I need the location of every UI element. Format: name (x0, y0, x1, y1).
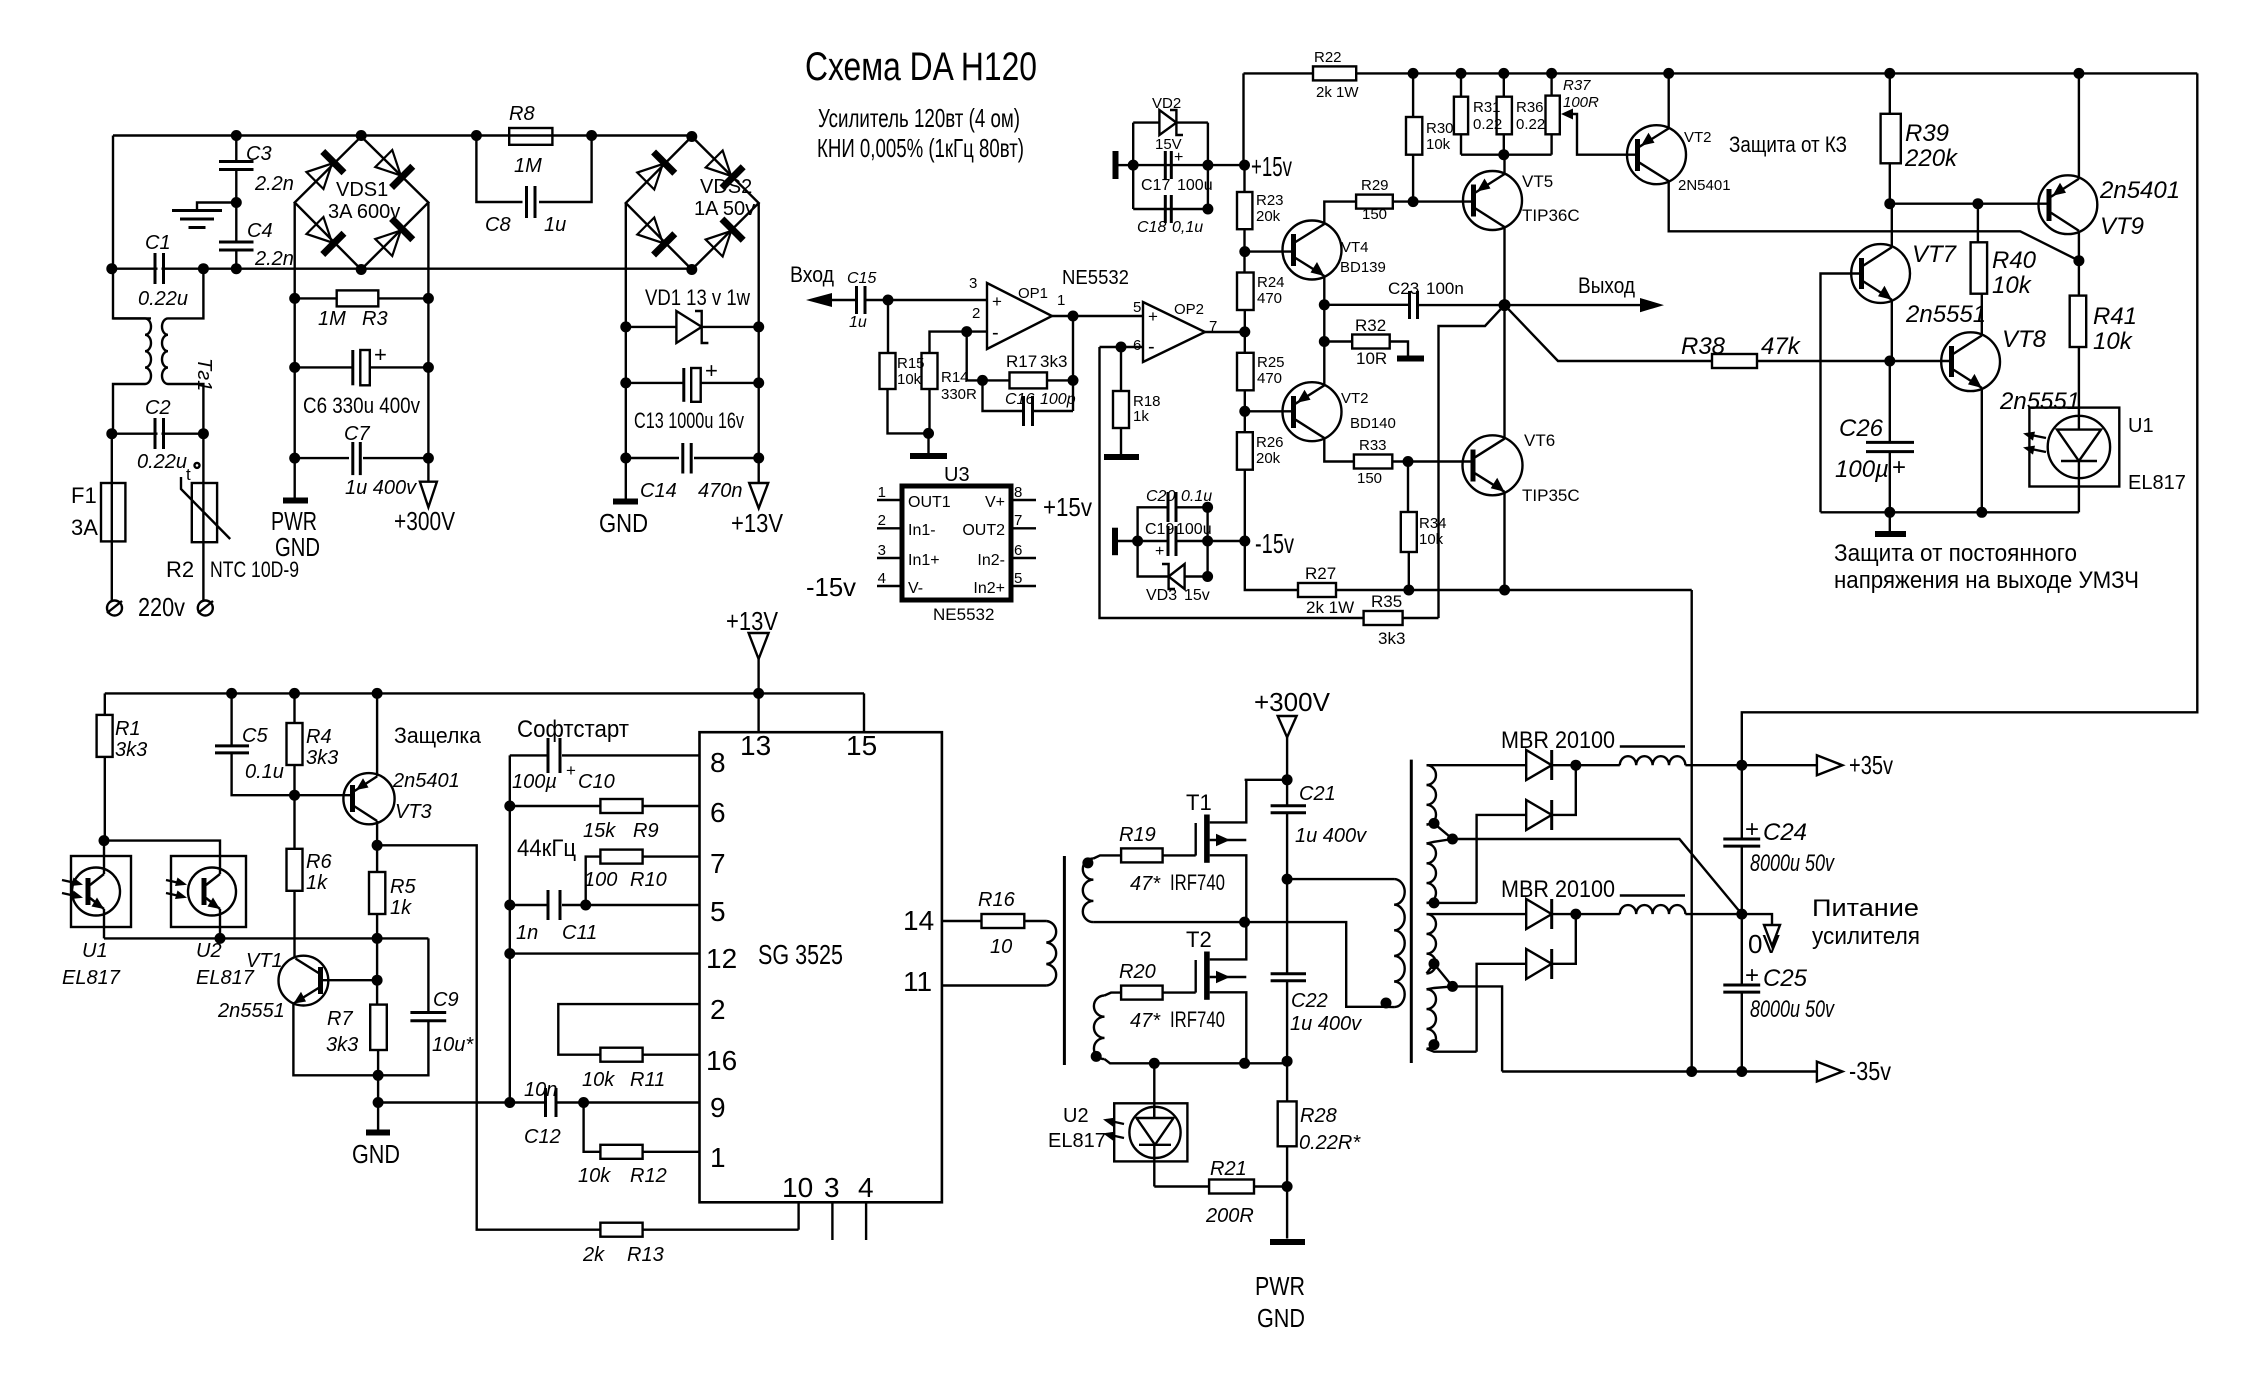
svg-text:10k: 10k (1992, 272, 2033, 299)
wire top rail (113, 134, 691, 136)
svg-text:+: + (1148, 307, 1158, 326)
svg-text:R36: R36 (1516, 99, 1544, 116)
VT3 emitter to rail (376, 693, 378, 776)
secondary W4 (1427, 989, 1437, 1048)
svg-text:R4: R4 (306, 726, 332, 748)
svg-text:15v: 15v (1184, 587, 1210, 604)
svg-text:+13V: +13V (731, 508, 784, 538)
svg-text:R23: R23 (1256, 192, 1284, 209)
VT3 collector down (376, 821, 378, 872)
svg-text:5: 5 (710, 896, 726, 927)
capacitor C6 (polarized) (295, 366, 353, 368)
svg-text:R16: R16 (978, 889, 1016, 911)
capacitor C19 (1138, 540, 1167, 542)
svg-text:10k: 10k (897, 371, 922, 388)
svg-text:C3: C3 (246, 143, 272, 165)
svg-text:0.22: 0.22 (1473, 116, 1502, 133)
svg-text:-: - (1148, 336, 1155, 358)
node R29/R30 (1408, 196, 1419, 207)
wire mid to main primary top (1287, 878, 1394, 880)
svg-text:U3: U3 (944, 464, 970, 486)
VT2 collector to R33 (1324, 438, 1354, 462)
capacitor C18 (1133, 208, 1208, 210)
svg-text:F1: F1 (71, 483, 97, 508)
svg-text:3A: 3A (71, 515, 98, 540)
svg-text:2: 2 (972, 305, 980, 322)
svg-text:+: + (1745, 816, 1759, 843)
node dot C3 top (231, 130, 242, 141)
svg-text:10: 10 (782, 1172, 813, 1203)
svg-text:VT6: VT6 (1524, 431, 1555, 450)
resistor R14 (922, 353, 938, 389)
U3 pin stubs right (1011, 499, 1036, 501)
svg-text:-15v: -15v (1255, 528, 1294, 559)
resistor R19 (1121, 848, 1163, 862)
svg-text:2k 1W: 2k 1W (1316, 84, 1359, 101)
svg-text:C5: C5 (242, 725, 268, 747)
VT4 collector lead + R29 line (1324, 202, 1356, 224)
svg-text:5: 5 (1133, 299, 1141, 316)
svg-text:R1: R1 (115, 718, 141, 740)
svg-text:OP1: OP1 (1018, 285, 1048, 302)
ground bar PWR GND (283, 498, 308, 504)
diode D2 (1477, 815, 1527, 903)
node C1 right (198, 263, 209, 274)
node feedback right (1068, 375, 1079, 386)
svg-text:470: 470 (1257, 370, 1282, 387)
node R33/R34 (1403, 456, 1414, 467)
resistor R17 (983, 379, 1010, 381)
VT1 emitter down to R7 bottom (293, 1004, 378, 1076)
svg-text:BD139: BD139 (1340, 259, 1386, 276)
svg-text:100R: 100R (1563, 94, 1599, 111)
pin 4 stub (865, 1202, 867, 1240)
svg-text:8000u 50v: 8000u 50v (1750, 996, 1835, 1023)
node VDS2 bottom (AC line end) (686, 264, 697, 275)
resistor R28 (1278, 1101, 1297, 1146)
svg-text:GND: GND (352, 1139, 400, 1169)
wire OP2 pin6 left (1100, 346, 1144, 348)
svg-text:-15v: -15v (806, 572, 856, 602)
svg-text:220k: 220k (1904, 145, 1959, 172)
svg-text:BD140: BD140 (1350, 415, 1396, 432)
wire amp top rail (1244, 72, 1314, 74)
arrow +13V (749, 483, 768, 508)
svg-text:R21: R21 (1210, 1158, 1247, 1180)
wire OP2 out to chain (1205, 331, 1245, 333)
resistor R27 line (1298, 583, 1336, 597)
node C21/C22 mid to primary (1282, 874, 1293, 885)
svg-text:8: 8 (710, 747, 726, 778)
svg-text:R29: R29 (1361, 177, 1389, 194)
svg-text:10k: 10k (1419, 531, 1444, 548)
svg-text:0V: 0V (1748, 929, 1780, 959)
transistor VT8 2n5551 (1941, 332, 2000, 391)
svg-text:Софтстарт: Софтстарт (517, 716, 629, 743)
svg-text:-: - (992, 322, 999, 344)
svg-text:+: + (1745, 962, 1759, 989)
wire C2 line (112, 433, 204, 435)
svg-text:напряжения на выходе УМЗЧ: напряжения на выходе УМЗЧ (1834, 567, 2139, 594)
arrow +300V (420, 482, 437, 508)
svg-text:R11: R11 (630, 1069, 665, 1091)
svg-text:2k 1W: 2k 1W (1306, 598, 1354, 617)
output wire + arrow Выход (1505, 304, 1643, 306)
VT6 emitter down (1503, 492, 1505, 590)
svg-text:3k3: 3k3 (115, 739, 147, 761)
secondary W2 (1427, 844, 1437, 903)
node dot VDS1 top (356, 130, 367, 141)
svg-text:7: 7 (1014, 512, 1022, 529)
svg-text:2n5401: 2n5401 (2099, 177, 2180, 204)
svg-text:9: 9 (710, 1092, 726, 1123)
capacitor C7 (295, 457, 349, 459)
svg-text:10R: 10R (1356, 349, 1387, 368)
svg-text:2n5551: 2n5551 (1999, 388, 2080, 415)
node VDS2 top (686, 131, 697, 142)
svg-text:0.22R*: 0.22R* (1299, 1132, 1361, 1154)
svg-text:3k3: 3k3 (306, 747, 338, 769)
capacitor C15 (855, 286, 858, 314)
svg-text:1: 1 (878, 484, 886, 501)
svg-text:усилителя: усилителя (1812, 923, 1920, 950)
node C5/R4/VT3 base (289, 790, 300, 801)
svg-text:U2: U2 (1063, 1105, 1089, 1127)
resistor R38 (1712, 354, 1757, 368)
node R15/R14 ground junction (923, 428, 934, 439)
emitter sense line R31/R36 bottoms (1461, 153, 1552, 155)
ground bar PWR GND (power) (1270, 1239, 1305, 1245)
svg-text:R39: R39 (1905, 120, 1949, 147)
capacitor C26 (1889, 361, 1891, 442)
wire VDS2 left vertical to GND rail (625, 203, 627, 499)
capacitor C4 (235, 203, 237, 243)
node R8 left / C8 left (471, 130, 482, 141)
svg-text:R14: R14 (941, 369, 969, 386)
svg-text:+300V: +300V (1254, 687, 1331, 717)
optocoupler U2 receiver (171, 856, 246, 927)
zener VD1 13v (626, 326, 677, 328)
VT8 emitter down (1981, 388, 1983, 512)
resistor R10 (586, 857, 601, 905)
ground bus for SG3525 (509, 755, 511, 1102)
node R18 top (1116, 342, 1127, 353)
node C1 left (106, 263, 117, 274)
node C15/R15 (883, 295, 894, 306)
svg-text:R17: R17 (1006, 352, 1037, 371)
svg-text:R32: R32 (1355, 316, 1386, 335)
wire to feedback node (967, 332, 983, 381)
emitter bus wire (104, 937, 428, 939)
resistor R22 (1313, 66, 1356, 80)
svg-text:VT9: VT9 (2100, 213, 2144, 240)
capacitor C1 (154, 253, 157, 284)
wire rail right end down to PSU (1742, 73, 2198, 765)
svg-text:1n: 1n (516, 922, 538, 944)
resistor R1 (104, 693, 106, 715)
svg-text:C16: C16 (1005, 391, 1034, 408)
svg-text:+15v: +15v (1251, 151, 1292, 182)
svg-text:2k: 2k (582, 1244, 605, 1266)
svg-text:C22: C22 (1291, 990, 1328, 1012)
svg-text:2: 2 (710, 994, 726, 1025)
svg-text:6: 6 (1014, 542, 1022, 559)
svg-text:1k: 1k (1133, 408, 1149, 425)
svg-text:100p: 100p (1040, 391, 1076, 408)
svg-text:470: 470 (1257, 290, 1282, 307)
VT2 emitter lead to rail (1667, 73, 1669, 128)
svg-text:100u: 100u (1176, 521, 1212, 538)
svg-text:2: 2 (878, 512, 886, 529)
0V ground arrow (1742, 914, 1772, 925)
resistor R16 (942, 920, 982, 922)
resistor R5 (369, 872, 385, 914)
svg-text:100n: 100n (1426, 279, 1464, 298)
node VDS1 bottom (356, 264, 367, 275)
svg-text:47*: 47* (1130, 1010, 1161, 1032)
svg-text:Выход: Выход (1578, 273, 1635, 298)
transistor VT9 2n5401 (2038, 175, 2097, 234)
svg-text:t: t (186, 465, 191, 484)
node OP2 out / R24-R25 (1239, 326, 1250, 337)
svg-text:VT3: VT3 (395, 801, 432, 823)
capacitor C9 (427, 938, 429, 1012)
main transformer core (1410, 760, 1413, 1063)
svg-text:13: 13 (740, 730, 771, 761)
diode D3 (1526, 899, 1552, 929)
svg-text:VT4: VT4 (1341, 239, 1369, 256)
svg-text:C4: C4 (247, 220, 273, 242)
diode D4 (1477, 964, 1527, 1052)
svg-text:470n: 470n (698, 480, 743, 502)
svg-text:+: + (566, 761, 576, 780)
svg-text:EL817: EL817 (1048, 1130, 1106, 1152)
resistor R4 (287, 723, 303, 765)
VT9 emitter to rail (2078, 73, 2080, 178)
wire output to R38 (1505, 305, 1713, 361)
svg-text:3A 600v: 3A 600v (328, 201, 400, 223)
transistor VT5 TIP36C (1463, 171, 1522, 230)
svg-text:Питание: Питание (1812, 895, 1919, 922)
protection bottom rail (1821, 511, 2079, 513)
svg-text:0.22u: 0.22u (138, 288, 188, 310)
svg-text:U1: U1 (2128, 415, 2154, 437)
VT9 collector down (2078, 231, 2080, 296)
node R1/U1/U2 collectors (99, 835, 110, 846)
resistor R15 (887, 300, 889, 353)
pin 10 stub (797, 1202, 799, 1229)
svg-text:PWR: PWR (1255, 1271, 1305, 1301)
svg-text:10u*: 10u* (432, 1034, 474, 1056)
svg-text:R33: R33 (1359, 437, 1387, 454)
svg-text:КНИ 0,005% (1кГц 80вт): КНИ 0,005% (1кГц 80вт) (817, 133, 1024, 163)
VT8 collector to R40 (1981, 294, 1983, 336)
resistor R13 (600, 1223, 642, 1237)
svg-text:GND: GND (1257, 1303, 1305, 1333)
resistor R21 (1154, 1185, 1209, 1187)
svg-text:6: 6 (710, 797, 726, 828)
wire feedback from pin6 down to R35 (1100, 347, 1364, 618)
capacitor C10 (softstart) (510, 754, 547, 756)
resistor R7 (370, 1005, 387, 1050)
svg-text:8000u 50v: 8000u 50v (1750, 850, 1835, 877)
wire -15 to chain (1208, 540, 1245, 542)
svg-text:1A 50v: 1A 50v (694, 198, 755, 220)
svg-text:R13: R13 (627, 1244, 664, 1266)
svg-text:C7: C7 (344, 423, 370, 445)
svg-text:100u: 100u (1177, 177, 1213, 194)
svg-text:Защита от КЗ: Защита от КЗ (1729, 132, 1847, 157)
svg-text:220v: 220v (138, 592, 185, 622)
svg-text:R27: R27 (1305, 564, 1336, 583)
svg-text:2N5401: 2N5401 (1678, 177, 1731, 194)
svg-text:C15: C15 (847, 270, 876, 287)
wire -35v feed down (1690, 590, 1692, 1072)
svg-text:150: 150 (1362, 206, 1387, 223)
svg-text:1M: 1M (318, 308, 346, 330)
node dots +15 (1128, 160, 1139, 171)
svg-text:Вход: Вход (790, 262, 834, 287)
svg-text:R2: R2 (166, 557, 194, 582)
svg-text:5: 5 (1014, 570, 1022, 587)
svg-text:+300V: +300V (394, 506, 456, 536)
resistor R20 (1121, 986, 1163, 1000)
svg-text:R35: R35 (1371, 592, 1402, 611)
center tap wire to 0V (1453, 839, 1742, 914)
svg-text:0.1u: 0.1u (245, 761, 284, 783)
svg-text:In2+: In2+ (973, 580, 1005, 597)
optocoupler U1 LED (2029, 408, 2119, 487)
VT4 emitter lead (1323, 276, 1325, 305)
svg-text:GND: GND (599, 508, 648, 538)
svg-text:TIP36C: TIP36C (1522, 206, 1580, 225)
resistor R9 (510, 805, 601, 807)
resistor R33 (1354, 455, 1392, 469)
svg-text:1u 400v: 1u 400v (345, 477, 417, 499)
svg-text:MBR 20100: MBR 20100 (1501, 727, 1615, 754)
svg-text:C2: C2 (145, 397, 171, 419)
feedback wire R35 to output (1439, 305, 1505, 618)
svg-text:100: 100 (584, 869, 617, 891)
capacitor C25 (1723, 984, 1760, 987)
svg-text:2n5401: 2n5401 (392, 770, 460, 792)
transformer Tr1 left winding (145, 318, 151, 384)
svg-text:C25: C25 (1763, 965, 1808, 992)
svg-text:1M: 1M (514, 155, 542, 177)
svg-text:2.2n: 2.2n (254, 248, 294, 270)
svg-text:OUT2: OUT2 (962, 522, 1005, 539)
svg-text:3: 3 (824, 1172, 840, 1203)
svg-text:R24: R24 (1257, 274, 1285, 291)
node T1 source / T2 drain midpoint (1239, 917, 1250, 928)
node C12 right / R12 (578, 1097, 589, 1108)
svg-text:7: 7 (710, 848, 726, 879)
ground (earth) symbol (197, 203, 236, 211)
capacitor C2 (154, 418, 157, 449)
VT5 collector lead to output (1503, 227, 1505, 305)
svg-text:47*: 47* (1130, 873, 1161, 895)
inductor L1 (1620, 745, 1685, 747)
transistor VT1 2n5551 (mirrored) (279, 956, 329, 1006)
svg-text:NE5532: NE5532 (1062, 267, 1129, 289)
svg-text:8: 8 (1014, 484, 1022, 501)
wire AC line y=268.7 (112, 268, 692, 270)
wire VT9 base line (1890, 202, 2049, 204)
node C2 left (106, 428, 117, 439)
svg-text:3: 3 (878, 542, 886, 559)
node R38/C26/VT8 base (1884, 356, 1895, 367)
svg-text:VT7: VT7 (1912, 241, 1958, 268)
svg-text:R19: R19 (1119, 824, 1156, 846)
IC U3 NE5532 pinout box (902, 486, 1011, 600)
svg-text:V-: V- (908, 580, 923, 597)
svg-text:Защелка: Защелка (394, 723, 482, 748)
svg-text:1u 400v: 1u 400v (1295, 825, 1367, 847)
resistor R39 (1881, 114, 1901, 164)
svg-text:1u: 1u (544, 214, 566, 236)
terminal left 220v (107, 601, 122, 616)
svg-text:+: + (1155, 543, 1164, 560)
resistor R31 (1454, 97, 1468, 135)
svg-text:6: 6 (1133, 337, 1141, 354)
svg-text:0.22u: 0.22u (137, 451, 187, 473)
node VT4 base (1239, 246, 1250, 257)
capacitor C22 (1271, 972, 1306, 975)
svg-text:Усилитель 120вт (4 ом): Усилитель 120вт (4 ом) (818, 103, 1020, 133)
optocoupler U1 receiver (71, 856, 131, 927)
svg-text:C18: C18 (1137, 219, 1166, 236)
wire VD2 right vertical (1207, 123, 1209, 209)
svg-text:C14: C14 (640, 480, 677, 502)
svg-text:C20: C20 (1146, 488, 1175, 505)
svg-text:2n5551: 2n5551 (217, 1000, 285, 1022)
transistor VT2 2N5401 (protection) (1627, 125, 1686, 184)
svg-text:VT2: VT2 (1341, 390, 1369, 407)
svg-text:100µ: 100µ (512, 771, 557, 793)
svg-text:R40: R40 (1992, 247, 2037, 274)
svg-text:T1: T1 (1186, 790, 1212, 815)
svg-text:11: 11 (903, 966, 932, 997)
svg-text:10k: 10k (578, 1165, 611, 1187)
svg-text:R25: R25 (1257, 354, 1285, 371)
-35v rail (1502, 1070, 1817, 1072)
VT6 collector to output (1503, 305, 1505, 439)
svg-text:1u: 1u (849, 314, 867, 331)
resistor R30 (1406, 117, 1422, 155)
svg-text:R8: R8 (509, 103, 535, 125)
secondary W3 (1427, 914, 1437, 973)
svg-text:+13V: +13V (726, 606, 779, 636)
resistor R26 (1237, 432, 1253, 470)
svg-text:VD2: VD2 (1152, 95, 1181, 112)
svg-text:Схема DA H120: Схема DA H120 (805, 45, 1037, 89)
svg-text:C26: C26 (1839, 415, 1884, 442)
svg-text:C1: C1 (145, 232, 171, 254)
node feedback left (977, 375, 988, 386)
node 0V (1736, 909, 1747, 920)
svg-text:44кГц: 44кГц (517, 835, 576, 862)
pin 3 stub (831, 1202, 833, 1240)
bridge rectifier VDS2 (626, 137, 759, 270)
svg-text:C19: C19 (1145, 521, 1174, 538)
svg-text:1k: 1k (390, 897, 412, 919)
svg-text:R12: R12 (630, 1165, 667, 1187)
transformer Tr1 right winding (168, 269, 203, 319)
svg-text:VT8: VT8 (2002, 326, 2047, 353)
svg-text:+: + (705, 358, 718, 383)
svg-text:GND: GND (275, 532, 320, 562)
svg-text:C12: C12 (524, 1126, 561, 1148)
